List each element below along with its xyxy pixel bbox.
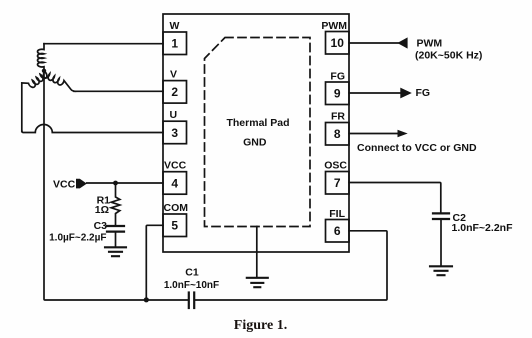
svg-text:C1: C1: [185, 267, 199, 279]
svg-text:1.0µF~2.2µF: 1.0µF~2.2µF: [49, 233, 106, 244]
svg-text:VCC: VCC: [164, 160, 187, 172]
wire pin 5 COM down to rail: [146, 225, 163, 300]
svg-text:8: 8: [334, 127, 341, 141]
wire U to pin 3 (with hop): [22, 125, 163, 133]
svg-text:5: 5: [171, 219, 178, 233]
resistor R1: [111, 183, 120, 225]
svg-text:4: 4: [171, 176, 178, 190]
ground (C2): [430, 266, 452, 275]
motor winding U coil: [22, 71, 47, 131]
svg-text:C3: C3: [94, 220, 108, 232]
FR arrowhead: [398, 130, 408, 137]
wire W to pin 1: [44, 43, 163, 45]
pin 4 box: [163, 172, 187, 195]
wire C2 to ground: [440, 219, 442, 266]
capacitor C3: [107, 226, 124, 232]
svg-text:7: 7: [334, 176, 341, 190]
svg-text:3: 3: [171, 126, 178, 140]
svg-text:(20K~50K Hz): (20K~50K Hz): [415, 49, 482, 61]
wire C3 to ground: [115, 232, 117, 247]
wire pin 8 FR: [349, 133, 399, 135]
svg-text:W: W: [170, 20, 180, 32]
svg-text:OSC: OSC: [324, 160, 347, 172]
wire thermal pad to ground: [256, 227, 258, 278]
pin 2 box: [163, 81, 187, 104]
motor winding V coil: [43, 71, 75, 91]
svg-text:PWM: PWM: [321, 20, 347, 32]
pin 1 box: [163, 32, 187, 55]
svg-text:PWM: PWM: [417, 37, 443, 49]
pin 7 box: [326, 172, 350, 195]
svg-text:FIL: FIL: [329, 208, 345, 220]
svg-text:GND: GND: [243, 137, 267, 149]
svg-text:FG: FG: [330, 71, 345, 83]
svg-text:FG: FG: [416, 87, 431, 99]
svg-text:9: 9: [334, 87, 341, 101]
svg-text:VCC: VCC: [53, 179, 76, 191]
pin 10 box: [326, 32, 350, 55]
pin 5 box: [163, 214, 187, 237]
wire pin 7 OSC to C2: [349, 183, 441, 214]
node: VCC/R1 junction: [113, 181, 118, 186]
svg-text:2: 2: [171, 85, 178, 99]
svg-text:U: U: [170, 109, 178, 121]
capacitor C2: [433, 213, 449, 219]
PWM input arrow: [397, 37, 407, 48]
pin 9 box: [326, 82, 350, 105]
wire V to pin 2: [74, 90, 163, 92]
svg-text:1Ω: 1Ω: [95, 204, 109, 216]
capacitor C1: [189, 293, 194, 309]
FG output arrow: [400, 88, 412, 99]
wire VCC to pin 4: [87, 182, 163, 184]
svg-text:Connect to VCC or GND: Connect to VCC or GND: [357, 142, 477, 154]
wire pin 6 FIL down to rail: [195, 231, 388, 300]
wire pin 10 to PWM arrow: [349, 42, 398, 44]
pin 8 box: [326, 123, 350, 146]
svg-text:FR: FR: [331, 111, 345, 123]
IC body U1: [163, 14, 349, 252]
ground (thermal pad): [247, 278, 268, 287]
pin 3 box: [163, 121, 187, 144]
svg-text:6: 6: [334, 224, 341, 238]
node: winding centre junction: [42, 69, 46, 73]
thermal pad dashed outline: [205, 38, 311, 227]
svg-text:1: 1: [171, 37, 178, 51]
VCC input symbol: [76, 179, 87, 189]
wire pin 9 to FG arrow: [349, 92, 401, 94]
svg-text:1.0nF~10nF: 1.0nF~10nF: [164, 280, 219, 291]
svg-text:V: V: [170, 69, 177, 81]
ground (C3): [105, 247, 126, 256]
svg-text:10: 10: [331, 36, 345, 50]
node: COM/C1 junction: [144, 297, 149, 302]
wire centre tap down to bottom rail: [44, 71, 189, 300]
pin 6 box: [326, 220, 350, 243]
svg-text:1.0nF~2.2nF: 1.0nF~2.2nF: [452, 222, 514, 234]
svg-text:Thermal Pad: Thermal Pad: [226, 117, 289, 129]
motor winding W coil: [38, 44, 44, 71]
svg-text:Figure 1.: Figure 1.: [234, 318, 287, 333]
svg-text:COM: COM: [164, 202, 189, 214]
